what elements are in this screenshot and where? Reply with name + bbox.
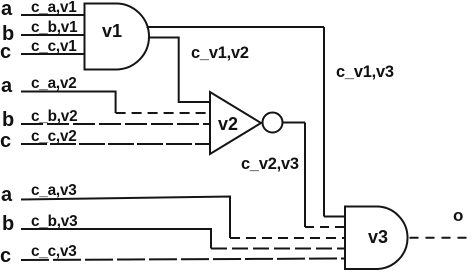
wire c_a,v3 solid part	[21, 197, 230, 239]
and-gate v1	[85, 4, 150, 70]
svg-text:b: b	[2, 109, 14, 131]
wire c_c,v3	[21, 259, 345, 261]
and-gate v3	[345, 207, 408, 270]
svg-text:c_v1,v3: c_v1,v3	[336, 63, 394, 81]
svg-text:c_v1,v2: c_v1,v2	[191, 44, 249, 62]
wire c_b,v3 dashed part	[211, 248, 345, 250]
wire c_v2,v3 dashed into v3	[305, 226, 345, 228]
wire c_b,v3 solid part	[21, 229, 211, 249]
inverter bubble v2	[263, 113, 283, 133]
wire c_b,v2	[21, 123, 210, 125]
wire c_a,v1	[21, 14, 84, 16]
wire c_a,v3 dashed part	[230, 237, 345, 239]
svg-text:c_c,v3: c_c,v3	[31, 243, 77, 260]
svg-text:c: c	[0, 130, 11, 152]
wire c_v2,v3 horizontal from bubble	[283, 122, 306, 124]
svg-text:v3: v3	[368, 227, 388, 247]
svg-text:v2: v2	[218, 114, 238, 134]
svg-text:c_b,v1: c_b,v1	[31, 19, 78, 36]
wire c_v2,v3 vertical	[304, 123, 306, 228]
svg-text:a: a	[1, 184, 13, 206]
wire c_a,v2 dashed part	[116, 112, 210, 114]
wire c_v1,v3 into v3	[324, 216, 345, 218]
svg-text:c_a,v1: c_a,v1	[31, 0, 77, 16]
svg-text:c_a,v2: c_a,v2	[31, 75, 77, 92]
wire c_c,v2	[21, 143, 210, 145]
svg-text:c_c,v2: c_c,v2	[31, 128, 77, 145]
svg-text:c_a,v3: c_a,v3	[31, 182, 77, 199]
svg-text:a: a	[1, 75, 13, 97]
svg-text:c: c	[0, 41, 11, 63]
svg-text:b: b	[2, 213, 14, 235]
svg-text:c_c,v1: c_c,v1	[31, 38, 77, 55]
svg-text:c_b,v2: c_b,v2	[31, 108, 77, 125]
wire c_a,v2 solid part	[21, 92, 116, 114]
wire c_v1,v2 from v1 output	[148, 38, 210, 103]
wire c_v1,v3 horizontal from v1 output	[147, 26, 325, 28]
svg-text:v1: v1	[102, 21, 122, 41]
output wire o dashed	[410, 237, 470, 239]
svg-text:a: a	[1, 0, 13, 20]
svg-text:c_b,v3: c_b,v3	[31, 213, 77, 230]
svg-text:c_v2,v3: c_v2,v3	[241, 155, 299, 173]
wire c_c,v1	[21, 53, 84, 55]
inverter v2	[210, 92, 261, 154]
wire c_b,v1	[21, 34, 84, 36]
svg-text:c: c	[0, 245, 11, 267]
svg-text:o: o	[453, 206, 463, 225]
wire c_v1,v3 vertical	[323, 27, 325, 217]
